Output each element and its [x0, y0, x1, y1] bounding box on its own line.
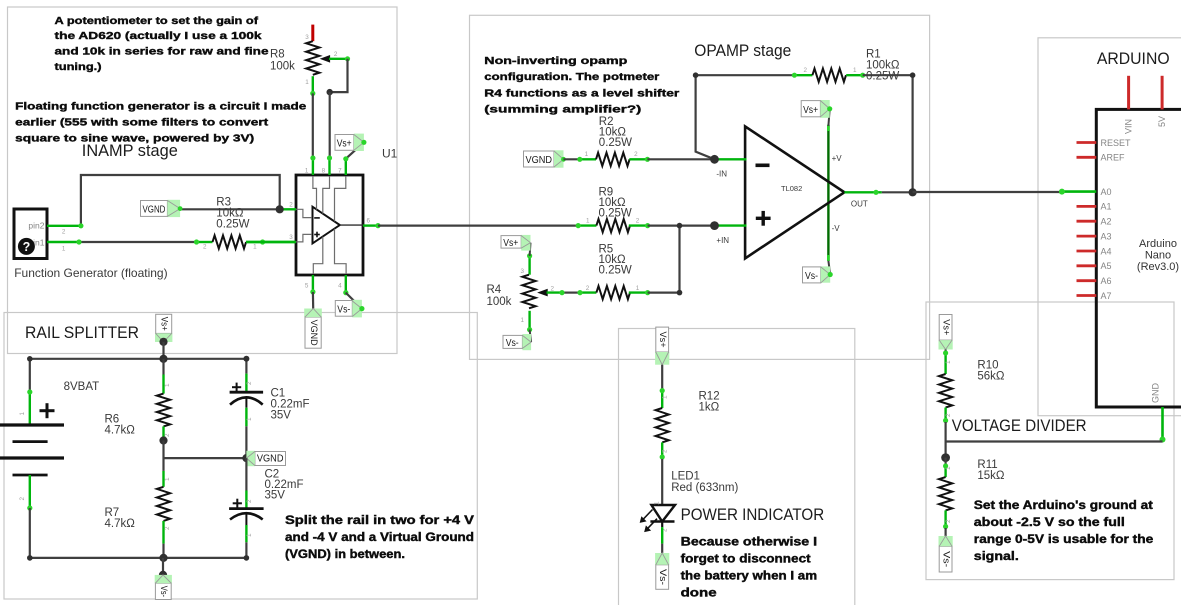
svg-text:35V: 35V [271, 410, 292, 422]
svg-text:the AD620 (actually I use a 10: the AD620 (actually I use a 100k [55, 30, 262, 42]
svg-text:1: 1 [853, 67, 857, 74]
svg-text:1: 1 [585, 151, 589, 158]
svg-text:1: 1 [305, 79, 309, 86]
svg-text:Arduino: Arduino [1139, 238, 1177, 250]
svg-text:2: 2 [289, 202, 293, 209]
svg-text:2: 2 [634, 151, 638, 158]
svg-text:forget to disconnect: forget to disconnect [681, 554, 811, 566]
component: Arduino Nano U3 [1096, 109, 1181, 407]
svg-text:OPAMP stage: OPAMP stage [694, 42, 791, 60]
net label Vs+ (power indicator) [655, 352, 669, 365]
svg-text:1: 1 [253, 244, 257, 251]
junction: bottom rail at R7 [159, 554, 167, 562]
wire: R8 bottom to U1 pin1 [312, 93, 314, 158]
wire: function generator pin2 up and over to U1 pin2 node [81, 175, 280, 226]
svg-text:POWER INDICATOR: POWER INDICATOR [681, 506, 825, 524]
wire: R1 to output node [863, 75, 913, 192]
svg-text:and -4 V and a Virtual Ground: and -4 V and a Virtual Ground [285, 532, 474, 544]
svg-text:8VBAT: 8VBAT [64, 381, 100, 393]
svg-text:the battery when I am: the battery when I am [681, 571, 818, 583]
junction: +IN node [710, 221, 719, 230]
wire: VGND to R2 [564, 158, 580, 160]
svg-text:A3: A3 [1101, 231, 1112, 241]
svg-text:VIN: VIN [1124, 119, 1134, 134]
wire: U1 pin5 to VGND flag [312, 292, 315, 309]
svg-text:4.7kΩ: 4.7kΩ [105, 425, 136, 437]
svg-text:1: 1 [662, 395, 669, 399]
junction: battery top corner [27, 356, 33, 362]
svg-text:VOLTAGE DIVIDER: VOLTAGE DIVIDER [952, 417, 1087, 435]
svg-text:Vs+: Vs+ [337, 139, 352, 150]
net label Vs- (R4 bottom) [530, 330, 532, 343]
LED LED1 [651, 505, 675, 522]
op-amp U1 AD620 body [296, 175, 363, 275]
svg-text:R4 functions as a level shifte: R4 functions as a level shifter [484, 87, 679, 99]
wire: Arduino GND to voltage divider [946, 440, 1163, 442]
Arduino GND pin [1161, 407, 1164, 442]
svg-text:0.25W: 0.25W [216, 219, 249, 231]
svg-text:1: 1 [62, 246, 66, 253]
svg-text:Because otherwise I: Because otherwise I [681, 537, 818, 549]
wire: R8 wiper down to U1 pin8 [330, 59, 348, 92]
svg-text:ARDUINO: ARDUINO [1097, 50, 1170, 68]
svg-text:1: 1 [164, 477, 171, 481]
svg-text:Vs-: Vs- [805, 271, 818, 282]
svg-text:Function Generator (floating): Function Generator (floating) [14, 266, 167, 280]
svg-text:1: 1 [636, 285, 640, 292]
svg-text:Vs+: Vs+ [160, 317, 170, 331]
resistor R12 [661, 391, 663, 408]
svg-text:A2: A2 [1101, 217, 1112, 227]
svg-text:0.25W: 0.25W [599, 265, 632, 277]
svg-text:RAIL SPLITTER: RAIL SPLITTER [25, 324, 139, 342]
svg-text:1kΩ: 1kΩ [699, 402, 720, 414]
svg-text:0.25W: 0.25W [599, 137, 632, 149]
svg-text:1: 1 [520, 317, 524, 324]
svg-text:A5: A5 [1101, 261, 1112, 271]
svg-text:GND: GND [1151, 383, 1161, 404]
net label Vs+ (R4 top) [529, 243, 532, 256]
svg-text:100k: 100k [487, 296, 512, 308]
svg-text:1: 1 [654, 501, 661, 505]
svg-text:Vs+: Vs+ [803, 105, 818, 116]
svg-text:earlier (555 with some filters: earlier (555 with some filters to conver… [15, 117, 269, 129]
wire: junction to R11 [944, 458, 946, 465]
wire: R9 to +IN junction [648, 225, 715, 227]
wire: Vs+ to top rail [162, 342, 164, 359]
wire: U1 output to OPAMP stage [378, 225, 578, 227]
svg-text:done: done [681, 588, 717, 600]
svg-text:Vs+: Vs+ [941, 319, 951, 335]
wire: output to junction [882, 191, 913, 193]
wire: R12 to LED1 [661, 459, 663, 505]
svg-text:square to sine wave, powered b: square to sine wave, powered by 3V) [15, 133, 254, 145]
junction: top rail at R6 [159, 355, 167, 363]
net label VGND (rail) [246, 451, 255, 466]
svg-text:VGND: VGND [308, 320, 319, 346]
svg-text:2: 2 [803, 67, 807, 74]
resistor R5 [596, 286, 630, 299]
wire: R4 wiper to R5 [547, 291, 564, 293]
svg-text:Vs-: Vs- [159, 586, 169, 597]
svg-text:3: 3 [305, 34, 309, 41]
resistor R11 [944, 465, 946, 477]
svg-text:RESET: RESET [1101, 138, 1132, 148]
wire: feedback from -IN junction up and right to R1 [696, 75, 795, 159]
junction: Vs+ flag tip [159, 338, 167, 346]
net label Vs+ (voltage divider) [939, 340, 953, 349]
svg-text:LED1: LED1 [671, 471, 700, 483]
svg-text:1: 1 [305, 168, 309, 175]
svg-text:+IN: +IN [716, 236, 729, 245]
section box: ARDUINO [1038, 38, 1181, 416]
junction: -IN node [710, 155, 719, 164]
svg-text:INAMP stage: INAMP stage [82, 142, 178, 160]
svg-text:Floating function generator is: Floating function generator is a circuit… [15, 100, 306, 112]
section box: VOLTAGE DIVIDER [926, 302, 1174, 580]
svg-text:2: 2 [164, 433, 171, 437]
svg-text:tuning.): tuning.) [55, 61, 102, 73]
svg-text:AREF: AREF [1101, 153, 1126, 163]
svg-text:4.7kΩ: 4.7kΩ [105, 518, 136, 530]
junction: battery bottom corner [27, 555, 33, 561]
resistor R2 [580, 158, 596, 160]
wire: rail splitter top rail [30, 358, 247, 360]
svg-text:?: ? [23, 240, 31, 254]
svg-text:Non-inverting opamp: Non-inverting opamp [484, 55, 627, 67]
svg-text:(Rev3.0): (Rev3.0) [1137, 261, 1179, 273]
svg-text:VGND: VGND [526, 155, 553, 166]
svg-text:7: 7 [338, 168, 342, 175]
svg-text:R8: R8 [270, 49, 285, 61]
net label Vs+ (rail top) [155, 333, 172, 342]
net label Vs- (power indicator) [655, 553, 669, 565]
junction: bottom rail at C2 [244, 555, 250, 561]
svg-text:Nano: Nano [1145, 250, 1171, 262]
resistor R6 [162, 359, 164, 375]
junction: R6/R7 midpoint [159, 436, 167, 444]
svg-text:1: 1 [246, 417, 253, 421]
svg-text:56kΩ: 56kΩ [977, 371, 1005, 383]
svg-text:A7: A7 [1101, 291, 1112, 301]
resistor R1 [794, 74, 812, 76]
wire: R11 to Vs- [944, 528, 946, 536]
junction: divider node [941, 453, 950, 462]
net label Vs- (U2) [828, 261, 830, 275]
help icon on function generator [18, 238, 35, 255]
wire: function generator pin1 to R3 [81, 241, 197, 243]
wire: VGND branch [164, 457, 247, 459]
svg-text:Vs-: Vs- [506, 338, 519, 349]
svg-text:3: 3 [289, 234, 293, 241]
svg-text:6: 6 [367, 218, 371, 225]
battery 8VBAT [29, 359, 31, 392]
wire: opamp output to Arduino A0 [913, 191, 1062, 193]
wire: rail splitter bottom rail [30, 557, 247, 559]
svg-text:2: 2 [246, 499, 253, 503]
svg-text:Vs-: Vs- [658, 569, 668, 585]
wire: Vs+ to R10 [944, 350, 946, 353]
wire: R10 to junction [944, 422, 946, 458]
net label Vs- (voltage divider) [939, 536, 953, 546]
svg-text:2: 2 [246, 381, 253, 385]
potentiometer R8 [311, 25, 314, 42]
svg-text:VGND: VGND [257, 454, 284, 465]
wire: midpoint down to R7 [162, 441, 164, 471]
resistor R9 [578, 224, 596, 226]
resistor R10 [944, 352, 946, 374]
junction: wiper wire corner [327, 89, 333, 95]
svg-text:0.25W: 0.25W [599, 208, 632, 220]
svg-text:OUT: OUT [851, 200, 868, 209]
svg-text:-IN: -IN [716, 170, 727, 179]
svg-text:2: 2 [334, 51, 338, 58]
svg-text:Vs+: Vs+ [503, 238, 518, 249]
svg-text:(VGND) in between.: (VGND) in between. [285, 549, 405, 561]
potentiometer R4 [528, 256, 530, 275]
svg-text:Red (633nm): Red (633nm) [671, 482, 738, 494]
svg-text:2: 2 [19, 497, 26, 501]
svg-text:Set the Arduino's ground at: Set the Arduino's ground at [974, 500, 1153, 512]
section box: RAIL SPLITTER [4, 313, 477, 600]
svg-text:VGND: VGND [143, 204, 166, 215]
svg-text:3: 3 [520, 268, 524, 275]
svg-text:0.25W: 0.25W [866, 71, 899, 83]
wire: A0 pin connection [1062, 190, 1096, 193]
U1 pin stubs [312, 158, 314, 175]
junction: VGND node [242, 454, 250, 462]
wire: R5 up to +IN junction [648, 226, 680, 293]
wire: VGND flag to U1 pin2 [180, 208, 281, 210]
section box: INAMP stage [8, 7, 398, 354]
net label VGND (below U1, rotated) [304, 309, 322, 318]
svg-text:Vs+: Vs+ [658, 332, 668, 348]
svg-text:2: 2 [164, 526, 171, 530]
svg-text:8: 8 [322, 168, 326, 175]
pin stubs of function generator [47, 225, 81, 227]
svg-text:Vs-: Vs- [941, 551, 951, 567]
resistor R7 [162, 471, 164, 487]
wire: R2 to -IN junction [647, 158, 714, 160]
svg-text:100k: 100k [270, 61, 295, 73]
svg-text:U1: U1 [382, 147, 398, 161]
svg-text:2: 2 [636, 218, 640, 225]
svg-text:about -2.5 V so the full: about -2.5 V so the full [974, 517, 1125, 529]
svg-text:5: 5 [305, 283, 309, 290]
junction: VGND/funcgen/U1 pin2 node [276, 205, 284, 213]
svg-text:A6: A6 [1101, 276, 1112, 286]
svg-text:A4: A4 [1101, 246, 1112, 256]
svg-text:1: 1 [945, 466, 952, 470]
svg-text:2: 2 [62, 229, 66, 236]
svg-text:2: 2 [945, 413, 952, 417]
component: function generator connector P1 [14, 209, 47, 259]
wire: LED1 to Vs- [661, 527, 663, 544]
capacitor C1 [245, 359, 247, 374]
svg-text:1: 1 [246, 533, 253, 537]
section box: OPAMP stage [470, 15, 930, 359]
junction: top rail at C1 [243, 356, 249, 362]
svg-text:configuration. The potmeter: configuration. The potmeter [484, 71, 659, 83]
svg-text:Split the rail in two for +4 V: Split the rail in two for +4 V [285, 515, 474, 527]
svg-text:(summing amplifier?): (summing amplifier?) [484, 104, 641, 116]
svg-text:2: 2 [586, 285, 590, 292]
net label Vs+ (U1 pin7) [346, 142, 364, 159]
svg-text:A0: A0 [1101, 187, 1112, 197]
svg-text:Vs-: Vs- [337, 305, 350, 316]
net label VGND (OPAMP) [554, 150, 564, 167]
capacitor C2 [245, 458, 247, 490]
svg-text:2: 2 [662, 449, 669, 453]
svg-text:1: 1 [19, 412, 26, 416]
svg-text:1: 1 [164, 383, 171, 387]
svg-text:R4: R4 [487, 284, 502, 296]
svg-text:and 10k in series for raw and: and 10k in series for raw and fine [55, 46, 269, 58]
resistor R3 [197, 241, 213, 243]
U2 input pins [715, 158, 747, 160]
junction: output node [909, 188, 917, 196]
op-amp U2 TL082 [827, 126, 829, 261]
section box: POWER INDICATOR [619, 329, 855, 605]
net label Vs+ (U2) [828, 109, 829, 126]
net label Vs- (rail bottom) [162, 558, 164, 575]
Arduino left pins [1077, 141, 1097, 144]
svg-text:-V: -V [832, 224, 841, 233]
net label Vs- (U1 pin4) [346, 293, 362, 309]
svg-text:1: 1 [945, 360, 952, 364]
svg-text:2: 2 [203, 244, 207, 251]
svg-text:4: 4 [338, 283, 342, 290]
svg-text:A1: A1 [1101, 202, 1112, 212]
svg-text:TL082: TL082 [781, 184, 802, 193]
svg-text:5V: 5V [1157, 116, 1167, 127]
svg-text:15kΩ: 15kΩ [977, 470, 1005, 482]
svg-text:range 0-5V is usable for the: range 0-5V is usable for the [974, 534, 1154, 546]
wire: down to U1 pin8 [329, 92, 331, 158]
svg-text:pin2: pin2 [28, 221, 44, 231]
Arduino top pins VIN 5V [1127, 76, 1130, 110]
svg-text:A potentiometer to set the gai: A potentiometer to set the gain of [55, 15, 259, 27]
svg-text:35V: 35V [265, 490, 286, 502]
svg-text:+V: +V [832, 154, 843, 163]
net label VGND (INAMP) [167, 200, 180, 217]
wire: Vs+ to R12 [661, 365, 663, 391]
svg-text:1: 1 [586, 218, 590, 225]
U2 output pin [844, 191, 881, 193]
svg-text:signal.: signal. [974, 551, 1019, 563]
svg-text:2: 2 [945, 519, 952, 523]
